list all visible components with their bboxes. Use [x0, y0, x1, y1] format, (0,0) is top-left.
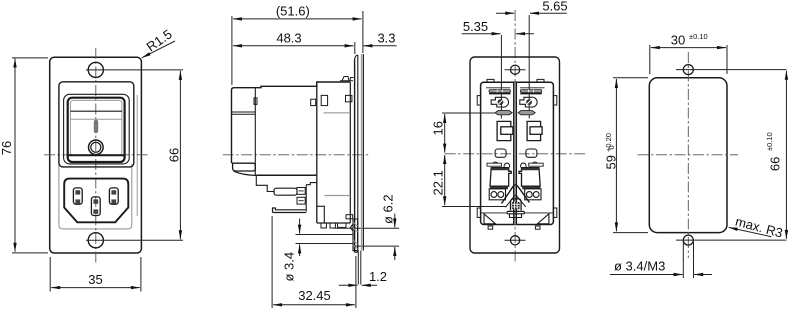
dim (51.6) [233, 18, 362, 20]
dim 66 [785, 71, 787, 239]
mounting bracket plate [273, 208, 307, 213]
vertical centerline [95, 48, 97, 263]
clamp left [487, 162, 511, 189]
cutout outline [649, 78, 727, 233]
max R3 leader [729, 227, 772, 236]
IEC curve under box [234, 171, 257, 175]
dim 59 [615, 79, 617, 231]
rear block left edge [316, 82, 318, 223]
parting lines front [232, 112, 256, 114]
bottom screw hole [88, 233, 103, 248]
svg-text:35: 35 [88, 272, 102, 287]
rear flange outline [470, 57, 560, 253]
terminal column [306, 183, 317, 212]
svg-text:1.2: 1.2 [369, 269, 387, 284]
rocker shadow line [70, 118, 122, 120]
svg-text:32.45: 32.45 [298, 288, 331, 303]
rear block bottom [317, 222, 351, 224]
dim phi3.4 [299, 219, 301, 234]
svg-text:ø 3.4: ø 3.4 [282, 252, 297, 282]
corner gussets [484, 214, 496, 224]
bezel recess lip [64, 94, 130, 164]
small rounded rects [495, 149, 506, 157]
clamp screws detail [297, 188, 305, 195]
dim 22.1 [444, 155, 446, 205]
svg-text:5.35: 5.35 [463, 19, 488, 34]
parting line rear grey [324, 112, 351, 114]
line through top screw [86, 69, 183, 71]
svg-text:±0.10: ±0.10 [689, 32, 708, 41]
body top outline [232, 82, 351, 163]
rear block right edge [349, 82, 351, 223]
top screw [510, 65, 519, 74]
pin R [109, 188, 118, 204]
rocker edge line [70, 110, 122, 112]
svg-text:66: 66 [768, 157, 783, 171]
inner body outline [481, 82, 554, 224]
svg-text:66: 66 [167, 148, 182, 162]
extension lines from dims to clips [501, 15, 529, 119]
grey shadow line [136, 95, 138, 216]
line through bottom screw [86, 239, 183, 241]
vertical centerline [687, 52, 689, 258]
svg-text:5.65: 5.65 [542, 0, 567, 14]
flange strip front line [354, 60, 356, 252]
switch bezel [59, 82, 134, 167]
R1.5 leader [142, 41, 175, 58]
panel grey line [361, 54, 363, 251]
dim 1.2 [339, 284, 358, 286]
rocker frame [68, 98, 125, 162]
fuse clip left with screw [491, 97, 508, 107]
dim 3.3 [363, 45, 396, 47]
dim 32.45 [272, 216, 356, 308]
bottom hole [683, 235, 693, 245]
bottom-left protrusion box [233, 163, 256, 171]
svg-text:ø 6.2: ø 6.2 [381, 194, 396, 224]
I marking [94, 120, 98, 134]
pin L [73, 188, 82, 204]
mid body bottom edge [256, 174, 317, 176]
terminal bumps [321, 223, 326, 228]
svg-text:59: 59 [604, 155, 619, 169]
lower snap foot with hatch [350, 219, 357, 251]
inner bottom line [481, 212, 554, 214]
svg-text:16: 16 [431, 121, 446, 135]
svg-text:ø 3.4/M3: ø 3.4/M3 [614, 259, 665, 274]
bottom tabs [488, 226, 493, 229]
svg-text:30: 30 [671, 33, 685, 48]
pointed slots [495, 111, 535, 115]
svg-text:0: 0 [607, 145, 616, 149]
clamp right [519, 162, 543, 189]
bottom screw [510, 236, 519, 245]
pin E center [91, 197, 100, 216]
rear block inner step [317, 206, 325, 223]
horizontal centerline [445, 153, 586, 155]
top hole [683, 65, 693, 75]
dim 76 [14, 59, 16, 252]
small rect lower right [346, 215, 353, 219]
fuse drawer bar [274, 188, 297, 195]
flange strip rear line with bevel [355, 55, 358, 252]
grey body rect behind [59, 164, 132, 229]
panel rear line [362, 54, 364, 251]
screw block left [489, 189, 505, 200]
svg-text:(51.6): (51.6) [276, 4, 310, 19]
dim 30 [651, 47, 726, 49]
extension lines top [232, 11, 363, 85]
rocker inner outline [70, 100, 122, 155]
center divider [514, 82, 517, 224]
extension below flange [358, 251, 361, 285]
svg-text:±0.10: ±0.10 [765, 132, 774, 151]
top latch tabs [487, 79, 494, 82]
flange outline [50, 57, 142, 253]
screw block right [525, 189, 541, 200]
horizontal centerline [638, 154, 739, 156]
dim 5.65 [496, 12, 514, 14]
vertical centerline [514, 10, 516, 262]
side tabs [477, 96, 480, 105]
step profile below [256, 175, 274, 191]
top snap foot [340, 77, 354, 81]
rear block grey line [324, 195, 350, 197]
svg-text:76: 76 [0, 141, 14, 155]
fuse clip right with screw [520, 97, 537, 107]
dim phi6.2 [334, 228, 400, 246]
earth base [507, 211, 525, 213]
top screw hole [88, 62, 103, 77]
svg-text:22.1: 22.1 [431, 170, 446, 195]
dim 66 [179, 71, 181, 239]
dim 48.3 [233, 45, 354, 47]
svg-text:3.3: 3.3 [377, 31, 395, 46]
O marking inner [91, 142, 101, 152]
front body right edge [254, 88, 256, 175]
compartment top lines [486, 87, 545, 89]
earth screw waffle [512, 202, 520, 209]
svg-text:48.3: 48.3 [276, 31, 301, 46]
fuse slot bars [489, 90, 542, 94]
dim 35 [50, 257, 141, 292]
rocker bottom edge [68, 154, 125, 156]
IEC C14 inlet outline [64, 179, 128, 223]
dim 5.35 [462, 33, 501, 35]
chevron roof [502, 185, 530, 204]
O marking outer [89, 140, 104, 155]
bracket hooks [497, 121, 513, 140]
horizontal centerline [44, 154, 150, 156]
horizontal centerline [223, 154, 370, 156]
small detail rects top [254, 98, 257, 105]
dim phi 3.4/M3 [683, 242, 693, 278]
dim 16 [444, 114, 446, 153]
earth screw house [511, 199, 522, 211]
